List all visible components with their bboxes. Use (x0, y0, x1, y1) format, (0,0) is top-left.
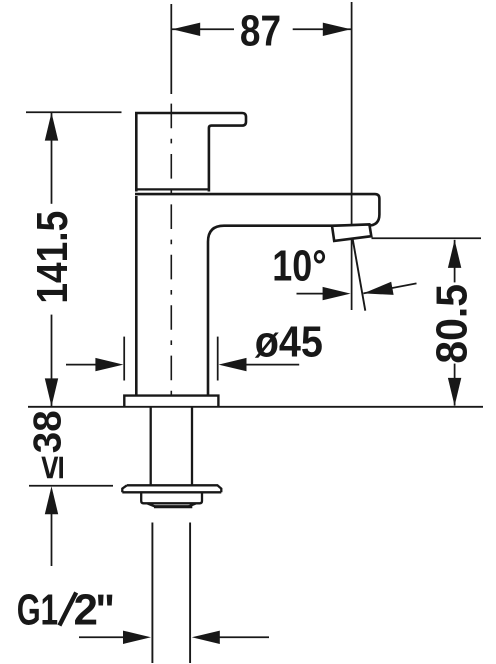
svg-text:G: G (17, 586, 41, 635)
body + spout top outline (135, 194, 379, 395)
extension line 38 bottom (plate top level) (29, 485, 113, 487)
arrowhead 87 right (323, 23, 351, 36)
dimension line dia45 left tail + arrowhead (66, 364, 96, 366)
10 deg slanted line (353, 239, 366, 311)
handle bottom line (135, 188, 210, 190)
plate (escutcheon) (122, 485, 221, 492)
dimension line dia45 right tail + arrowhead (246, 364, 299, 366)
locknut (141, 492, 202, 506)
svg-text:141.5: 141.5 (27, 211, 77, 304)
aerator outlet piece (10deg) (332, 224, 371, 241)
svg-text:38: 38 (26, 410, 69, 453)
arrowhead 141.5/38 down at deck (45, 378, 58, 406)
shank below deck (150, 407, 152, 485)
dimension 10deg left tail + arrowhead (297, 293, 324, 295)
svg-text:87: 87 (240, 6, 281, 56)
deck line (flange bottom, long extension both sides) (28, 406, 483, 408)
arrowhead 141.5 up (45, 113, 58, 141)
svg-text:ø45: ø45 (255, 316, 323, 365)
svg-text:1: 1 (41, 586, 59, 635)
tailpipe G1/2 (151, 523, 153, 664)
svg-text:2: 2 (74, 586, 98, 635)
dimension line 80.5 (454, 240, 456, 283)
extension line dia45 right (217, 337, 219, 381)
svg-text:≤: ≤ (33, 456, 71, 480)
extension line dia45 left (123, 337, 125, 381)
arrowhead 87 left (172, 23, 200, 36)
slash of G1/2" (59, 593, 76, 626)
extension line 141.5 top (26, 111, 122, 113)
dimension line 87 (172, 28, 234, 30)
arrowhead 38 up + tail (45, 486, 58, 514)
svg-text:80.5: 80.5 (428, 284, 477, 364)
arrowhead 80.5 up (448, 240, 461, 268)
dimension line 141.5 (51, 113, 53, 204)
svg-text:10°: 10° (272, 241, 326, 290)
extension line right vertical (87 right / 10 deg reference) (351, 2, 353, 310)
arrowhead 80.5 down (448, 378, 461, 406)
centerline (dash-dot) (170, 104, 172, 407)
flange at deck (124, 396, 218, 407)
handle outline (136, 113, 246, 192)
dimension line G1/2 bottom (79, 636, 124, 638)
extension line 80.5 top (from outlet) (372, 237, 482, 239)
dimension 10deg right tail + arrowhead (slightly tilted) (363, 283, 416, 293)
extension line centerline-top (87 left) (170, 4, 172, 94)
svg-text:": " (95, 586, 115, 635)
